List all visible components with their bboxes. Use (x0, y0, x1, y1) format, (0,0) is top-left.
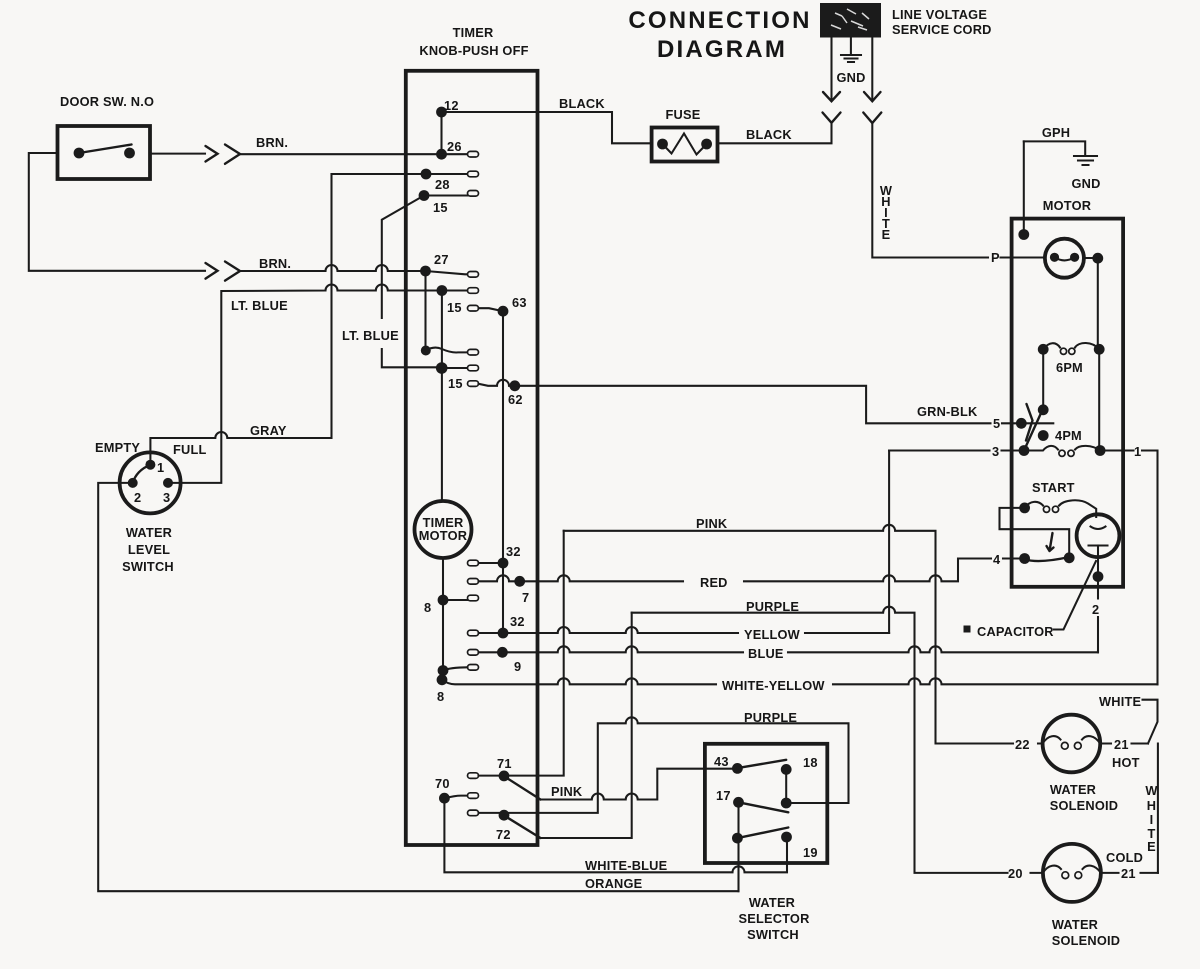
svg-text:63: 63 (512, 295, 527, 310)
contact oval 8b (468, 665, 479, 671)
svg-text:LT. BLUE: LT. BLUE (342, 328, 399, 343)
junction dot 8a (438, 595, 449, 606)
wire WHITE-BLUE 70 to selector 19 (444, 798, 787, 872)
6PM winding left dot (1038, 344, 1049, 355)
wire 27 stub to contact (426, 271, 468, 274)
svg-text:62: 62 (508, 392, 523, 407)
junction dot 32b (498, 628, 509, 639)
contact oval 27 (468, 272, 479, 278)
svg-text:BLUE: BLUE (748, 646, 784, 661)
wire motor 1 out to right edge (1100, 451, 1157, 685)
selector node 18b dot (781, 798, 792, 809)
6PM winding coil (1043, 343, 1099, 354)
svg-text:BLACK: BLACK (559, 96, 605, 111)
wire 32a to riser (479, 562, 504, 564)
motor pin 3 dot (1019, 445, 1030, 456)
cold solenoid coil (1043, 866, 1101, 879)
contact oval 26 (468, 151, 479, 157)
svg-text:8: 8 (424, 600, 431, 615)
centrifugal switch contacts (1050, 253, 1079, 262)
timer terminal 9 dot (497, 647, 508, 658)
svg-text:BRN.: BRN. (259, 256, 291, 271)
wire 15a diagonal to LT. BLUE riser (382, 196, 442, 368)
wire junction to contact oval (426, 348, 468, 353)
junction dot (27 riser bottom) (421, 346, 431, 356)
water level pin 2 dot (128, 478, 138, 488)
svg-text:LINE VOLTAGE: LINE VOLTAGE (892, 7, 987, 22)
wire 72 blade to PURPLE1 riser (541, 613, 632, 838)
fuse element zigzag (663, 134, 707, 155)
big junction dot 15d (436, 362, 448, 374)
svg-text:MOTOR: MOTOR (1043, 198, 1091, 213)
svg-text:GRAY: GRAY (250, 423, 287, 438)
label CAPACITOR with bullet (964, 624, 1054, 639)
svg-text:15: 15 (448, 376, 463, 391)
svg-text:GPH: GPH (1042, 125, 1070, 140)
wire door switch to timer 26 (BRN) (150, 153, 205, 155)
contact oval 8a (468, 595, 479, 601)
wire 8a stub to motor line (443, 599, 468, 601)
timer terminal 15b dot (437, 285, 448, 296)
wire 15e to 62 with hop over 63 riser (479, 380, 515, 386)
svg-text:PINK: PINK (696, 516, 728, 531)
svg-text:WHITE-YELLOW: WHITE-YELLOW (722, 678, 825, 693)
svg-text:SWITCH: SWITCH (122, 559, 174, 574)
timer motor M circle (415, 501, 472, 558)
wire PINK (lower) 71 blade to selector 43 (541, 769, 738, 800)
wire LT. BLUE to terminal 15b with hops (168, 285, 442, 483)
wire 27 riser down to junction (424, 271, 426, 351)
svg-text:EMPTY: EMPTY (95, 440, 140, 455)
svg-text:21: 21 (1114, 737, 1129, 752)
wire 3 riser down to YELLOW (888, 451, 890, 634)
wire BRN to terminal 26 (240, 153, 442, 155)
svg-text:WATER: WATER (126, 525, 172, 540)
svg-text:GND: GND (836, 70, 865, 85)
wire 15b riser down to timer motor (441, 291, 443, 502)
capacitor plates (1089, 527, 1108, 577)
svg-text:MOTOR: MOTOR (419, 528, 467, 543)
timer terminal 7 dot (514, 576, 525, 587)
svg-text:9: 9 (514, 659, 521, 674)
svg-text:LT. BLUE: LT. BLUE (231, 298, 288, 313)
svg-text:6PM: 6PM (1056, 360, 1083, 375)
contact oval 72 (468, 810, 479, 816)
svg-text:H: H (1147, 798, 1156, 813)
wire service neutral conductor with male arrow (864, 38, 881, 102)
svg-text:WATER: WATER (749, 895, 795, 910)
svg-text:BRN.: BRN. (256, 135, 288, 150)
wire 71 to PINK riser (479, 531, 564, 776)
water level pin 1 dot (145, 460, 155, 470)
svg-text:LEVEL: LEVEL (128, 542, 170, 557)
contact oval 32a (468, 560, 479, 566)
svg-text:SOLENOID: SOLENOID (1052, 933, 1120, 948)
wire 26 stub to contact (442, 153, 468, 155)
svg-text:3: 3 (163, 490, 170, 505)
motor GPH dot (1018, 229, 1029, 240)
motor pin 4 dot (1019, 553, 1030, 564)
wire PINK (top) run to hot solenoid 22 (564, 525, 1043, 744)
wire motor bus P to 6PM (1097, 258, 1099, 349)
svg-text:20: 20 (1008, 866, 1023, 881)
pin 5 rest line (1021, 422, 1053, 424)
svg-text:PURPLE: PURPLE (746, 599, 799, 614)
wire hot 21 to white riser (1100, 742, 1148, 744)
wire WHITE service neutral down to motor P (872, 123, 988, 258)
svg-text:26: 26 (447, 139, 462, 154)
svg-text:GND: GND (1071, 176, 1100, 191)
connector chevrons (BRN top) (206, 145, 241, 164)
contact oval 7 (468, 579, 479, 585)
capacitor node dot 2 (1093, 571, 1104, 582)
wire 32b stub (479, 632, 504, 634)
start switch blade (1025, 557, 1070, 561)
svg-text:8: 8 (437, 689, 444, 704)
wire BLUE run 9 to capacitor node (502, 646, 1098, 652)
ground symbol (service cord) (841, 38, 861, 62)
wire motor 3 with label gap (889, 449, 1024, 451)
svg-text:32: 32 (510, 614, 525, 629)
6PM winding right dot (1094, 344, 1105, 355)
selector terminal 17 dot (733, 797, 744, 808)
wire 15a stub (424, 194, 468, 196)
wire timer motor down to 8 terminals (442, 558, 444, 680)
wire 15c to 63 (479, 308, 503, 311)
4PM selector contact dot (1038, 430, 1049, 441)
label TIMER MOTOR (419, 515, 467, 543)
selector node 17b dot (732, 833, 743, 844)
fuse F1 box (652, 128, 718, 162)
wire GRAY water level 1 to timer 28 (150, 174, 331, 465)
wire 8b stub (443, 667, 468, 670)
junction dot 8b (438, 665, 449, 676)
label TIMER KNOB-PUSH OFF (419, 25, 528, 58)
title CONNECTION DIAGRAM (628, 7, 811, 63)
svg-text:15: 15 (433, 200, 448, 215)
motor box (1012, 219, 1124, 587)
svg-text:5: 5 (993, 416, 1000, 431)
wire 2 down to BLUE with label gap (1097, 577, 1099, 653)
timer terminal 26 dot (436, 149, 447, 160)
svg-text:ORANGE: ORANGE (585, 876, 643, 891)
6PM selector contact dot (1038, 404, 1049, 415)
selector terminal 43 dot (732, 763, 743, 774)
svg-text:P: P (991, 250, 1000, 265)
svg-text:E: E (1147, 839, 1156, 854)
svg-text:DOOR SW. N.O: DOOR SW. N.O (60, 94, 154, 109)
svg-text:SERVICE CORD: SERVICE CORD (892, 22, 992, 37)
motor node dot right of switch (1092, 253, 1103, 264)
selector blade 17b (737, 828, 788, 839)
contact oval 15e (468, 381, 479, 387)
svg-text:TIMER: TIMER (453, 25, 494, 40)
timer terminal 72 dot (499, 810, 510, 821)
svg-text:FULL: FULL (173, 442, 207, 457)
svg-text:43: 43 (714, 754, 729, 769)
overload protector notch (1000, 508, 1070, 553)
wire BRN to terminal 27 with hops (240, 265, 426, 271)
motor pin 5 dot (1016, 418, 1027, 429)
timer terminal 15a dot (419, 190, 430, 201)
wire ORANGE water level 2 to selector 17 (98, 483, 738, 891)
svg-text:28: 28 (435, 177, 450, 192)
timer terminal 63 dot (498, 306, 509, 317)
wire 7 with hop then dot (479, 575, 520, 581)
contact oval 15c (to 63) (468, 305, 479, 311)
contact oval 9 (468, 650, 479, 656)
svg-text:CONNECTION: CONNECTION (628, 7, 811, 34)
contact oval 15a (468, 191, 479, 197)
svg-text:27: 27 (434, 252, 449, 267)
door switch dot left (74, 148, 85, 159)
svg-text:12: 12 (444, 98, 459, 113)
label WHITE (vertical, service) (880, 183, 893, 242)
capacitor circle (1077, 514, 1120, 557)
selector terminal 19 dot (781, 832, 792, 843)
wire service hot conductor with male arrow (823, 38, 840, 102)
svg-text:21: 21 (1121, 866, 1136, 881)
svg-text:18: 18 (803, 755, 818, 770)
hot water solenoid circle (1043, 715, 1101, 773)
contact oval (junction row) (468, 349, 479, 355)
svg-text:SOLENOID: SOLENOID (1050, 798, 1118, 813)
wire WHITE-YELLOW run 8 to right side (442, 678, 1158, 684)
svg-text:32: 32 (506, 544, 521, 559)
switch blade 72 (504, 816, 541, 839)
svg-text:WATER: WATER (1050, 782, 1096, 797)
wire 28 run to GRAY riser (332, 173, 468, 175)
junction dot 8c (437, 674, 448, 685)
svg-text:WHITE: WHITE (1099, 694, 1141, 709)
svg-text:PINK: PINK (551, 784, 583, 799)
wire 17 riser to ORANGE (737, 838, 739, 891)
svg-text:COLD: COLD (1106, 850, 1143, 865)
contact oval 28 (468, 171, 479, 177)
wire WHITE right riser with label break (1143, 700, 1158, 873)
wire 70 stub (444, 796, 467, 799)
contact oval 15d (468, 365, 479, 371)
svg-text:WATER: WATER (1052, 917, 1098, 932)
svg-text:71: 71 (497, 756, 512, 771)
timer box (406, 71, 538, 845)
cold water solenoid circle (1043, 844, 1101, 902)
speed selector blade arrows (1026, 404, 1033, 441)
svg-text:CAPACITOR: CAPACITOR (977, 624, 1054, 639)
svg-text:PURPLE: PURPLE (744, 710, 797, 725)
svg-text:YELLOW: YELLOW (744, 627, 801, 642)
svg-text:HOT: HOT (1112, 755, 1140, 770)
timer terminal 62 dot (509, 380, 520, 391)
fuse terminal dot left (657, 139, 668, 150)
wire 18 drop (785, 769, 787, 803)
water level blade 2 to 1 (133, 465, 151, 483)
timer terminal 12 dot (436, 107, 447, 118)
blade 3 to 6PM contact (1024, 412, 1042, 451)
start switch actuator arrow (1047, 533, 1054, 551)
wire door switch left down and to timer 27 (BRN) (29, 153, 205, 271)
contact oval 32b (468, 630, 479, 636)
wire 6PM left contact drop (1042, 349, 1044, 410)
label WATER SOLENOID (cold) (1052, 917, 1120, 948)
start switch contact dot (1064, 552, 1075, 563)
wire P into centrifugal switch (1001, 256, 1098, 259)
label LINE VOLTAGE SERVICE CORD (892, 7, 992, 37)
svg-text:70: 70 (435, 776, 450, 791)
wire timer 12 to fuse (BLACK) (442, 112, 652, 143)
svg-text:17: 17 (716, 788, 731, 803)
svg-text:START: START (1032, 480, 1075, 495)
wire female left to fuse (718, 123, 832, 144)
wire 17 drop (737, 802, 739, 838)
svg-text:1: 1 (157, 460, 164, 475)
svg-text:22: 22 (1015, 737, 1030, 752)
svg-text:W: W (1145, 783, 1158, 798)
svg-text:RED: RED (700, 575, 728, 590)
centrifugal switch circle (1045, 239, 1084, 278)
line voltage service cord plug (820, 3, 881, 38)
door switch S1 box (58, 126, 151, 179)
wire PURPLE (upper) run to cold solenoid 20 (632, 607, 1043, 873)
water level pin 3 dot (163, 478, 173, 488)
selector blade 17 (739, 802, 789, 812)
svg-text:72: 72 (496, 827, 511, 842)
hot solenoid coil (1043, 736, 1101, 749)
wire 63 riser down to 32/32 (502, 311, 504, 633)
label WHITE (vertical right) (1145, 783, 1158, 854)
capacitor callout line (1054, 561, 1096, 630)
water selector switch box (705, 744, 827, 863)
wire cold 21 to white riser (1101, 872, 1158, 874)
ground symbol (motor) (1074, 156, 1097, 165)
switch blade 71 (504, 776, 541, 799)
selector blade 43 (737, 760, 786, 768)
wire 9 stub (479, 651, 503, 653)
wire 15b stub (442, 289, 468, 291)
label WATER SELECTOR SWITCH (738, 895, 809, 942)
connector chevrons (BRN lower) (206, 262, 241, 281)
svg-text:2: 2 (134, 490, 141, 505)
svg-text:I: I (1150, 812, 1154, 827)
timer terminal 70 dot (439, 793, 450, 804)
fuse terminal dot right (701, 139, 712, 150)
wire GPH to ground (1024, 141, 1085, 154)
label WATER LEVEL SWITCH (122, 525, 174, 574)
4PM winding coil (1024, 446, 1100, 457)
timer terminal 28 dot (421, 169, 432, 180)
wire RED run 7 to motor 4 (520, 559, 1025, 582)
contact oval 15b (468, 288, 479, 294)
connector female left (823, 113, 841, 123)
svg-text:19: 19 (803, 845, 818, 860)
timer terminal 71 dot (499, 771, 510, 782)
svg-text:E: E (882, 227, 891, 242)
door switch blade (79, 145, 132, 154)
connector female right (863, 113, 881, 124)
junction dot 32a (498, 558, 509, 569)
wire 15d stub (442, 367, 468, 369)
4PM winding right dot (1095, 445, 1106, 456)
svg-text:4: 4 (993, 552, 1001, 567)
contact oval 70 (468, 793, 479, 799)
start winding left dot (1019, 503, 1030, 514)
wire GPH into motor box (1023, 141, 1025, 234)
wire motor bus 6PM to 4PM (1098, 349, 1100, 450)
door switch dot right (124, 148, 135, 159)
svg-text:DIAGRAM: DIAGRAM (657, 36, 787, 63)
contact oval 71 (468, 773, 479, 779)
wire 12 to 26 (440, 112, 442, 154)
svg-text:1: 1 (1134, 444, 1141, 459)
water level switch S2 circle (120, 452, 181, 513)
start winding coil (1025, 500, 1097, 517)
svg-text:KNOB-PUSH OFF: KNOB-PUSH OFF (419, 43, 528, 58)
svg-text:15: 15 (447, 300, 462, 315)
svg-text:BLACK: BLACK (746, 127, 792, 142)
svg-text:7: 7 (522, 590, 529, 605)
wire YELLOW run 32b to motor 3 riser (503, 627, 889, 633)
label WATER SOLENOID (hot) (1050, 782, 1118, 813)
wire 62 to motor 5 (GRN-BLK) (515, 386, 1022, 424)
svg-text:3: 3 (992, 444, 999, 459)
svg-text:GRN-BLK: GRN-BLK (917, 404, 978, 419)
svg-text:SWITCH: SWITCH (747, 927, 799, 942)
svg-text:FUSE: FUSE (666, 107, 701, 122)
svg-text:2: 2 (1092, 602, 1099, 617)
svg-text:SELECTOR: SELECTOR (738, 911, 809, 926)
selector terminal 18 dot (781, 764, 792, 775)
svg-text:4PM: 4PM (1055, 428, 1082, 443)
wire 72 to PURPLE riser and selector 18 (479, 717, 849, 813)
svg-text:WHITE-BLUE: WHITE-BLUE (585, 858, 668, 873)
timer terminal 27 dot (420, 266, 431, 277)
